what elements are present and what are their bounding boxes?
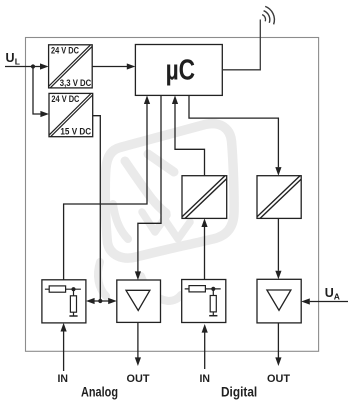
junction node (D-IN): [211, 287, 215, 291]
wire digital-in isolator to uC: [172, 95, 205, 175]
analog output block A-OUT: [117, 280, 161, 322]
wire digital-in block to ISO1: [201, 218, 207, 279]
DC/DC converter PS1 24V-3.3V: [48, 44, 93, 89]
isolation barrier ISO2 (digital out): [256, 175, 303, 220]
svg-text:3,3 V DC: 3,3 V DC: [60, 78, 92, 89]
isolation barrier ISO1 (digital in): [181, 175, 228, 220]
value label 24 V DC (PS1): [51, 46, 79, 57]
value label 24 V DC (PS2): [51, 94, 79, 105]
wire UL to PS2: [33, 67, 49, 118]
value label 3,3 V DC (PS1): [60, 78, 92, 89]
ground bar (A-IN): [69, 315, 77, 317]
wire uC to digital-out isolator: [189, 95, 282, 175]
resistor R2 (shunt): [70, 289, 76, 316]
node UL label: [6, 51, 21, 67]
node UA label: [325, 286, 340, 302]
label OUT (analog): [127, 373, 150, 385]
wire analog OUT terminal: [135, 322, 141, 366]
svg-text:24 V DC: 24 V DC: [51, 46, 79, 57]
wire PS1 to uC: [92, 63, 135, 69]
wire uC to analog-out: [135, 95, 161, 280]
wire analog-in to uC: [64, 95, 151, 279]
resistor R1 (series): [45, 286, 81, 292]
watermark logo: [98, 124, 234, 301]
svg-text:U: U: [325, 286, 334, 300]
svg-text:OUT: OUT: [127, 373, 150, 385]
svg-text:U: U: [6, 51, 15, 65]
antenna ANT1: [222, 6, 274, 69]
resistor R4 (shunt): [210, 289, 216, 316]
analog input block A-IN: [42, 280, 86, 323]
wire ISO2 to digital-out block: [275, 218, 281, 279]
digital input block D-IN: [182, 280, 226, 323]
microcontroller U1: [135, 45, 222, 96]
svg-text:15 V DC: 15 V DC: [60, 127, 91, 138]
wire digital IN terminal: [202, 324, 208, 369]
svg-text:L: L: [15, 56, 20, 66]
svg-text:Digital: Digital: [221, 384, 257, 400]
label Analog: [81, 384, 118, 400]
svg-text:IN: IN: [58, 373, 69, 385]
wire UA input: [301, 298, 348, 304]
svg-text:IN: IN: [200, 373, 211, 385]
label Digital: [221, 384, 257, 400]
wire 15V rail to analog blocks (bidirectional): [86, 298, 117, 304]
svg-text:24 V DC: 24 V DC: [51, 94, 79, 105]
svg-text:Analog: Analog: [81, 384, 118, 400]
wire PS2 15V rail: [93, 116, 101, 301]
wire analog IN terminal: [61, 323, 67, 371]
label IN (digital): [200, 373, 211, 385]
op-amp triangle (A-OUT): [126, 290, 150, 310]
junction 15V rail: [98, 299, 102, 303]
wire UL input: [5, 63, 49, 69]
enclosure border: [26, 38, 319, 352]
label IN (analog): [58, 373, 69, 385]
wire digital OUT terminal: [275, 323, 281, 366]
digital output block D-OUT: [257, 279, 301, 323]
op-amp triangle (D-OUT): [267, 290, 291, 310]
svg-text:µC: µC: [166, 54, 196, 86]
resistor R3 (series): [185, 286, 221, 292]
junction UL: [31, 64, 35, 68]
DC/DC converter PS2 24V-15V: [48, 93, 93, 138]
label OUT (digital): [267, 373, 290, 385]
junction node (A-IN): [71, 287, 75, 291]
value label 15 V DC (PS2): [60, 127, 91, 138]
svg-text:OUT: OUT: [267, 373, 290, 385]
ground bar (D-IN): [209, 315, 217, 317]
svg-text:A: A: [334, 292, 340, 302]
